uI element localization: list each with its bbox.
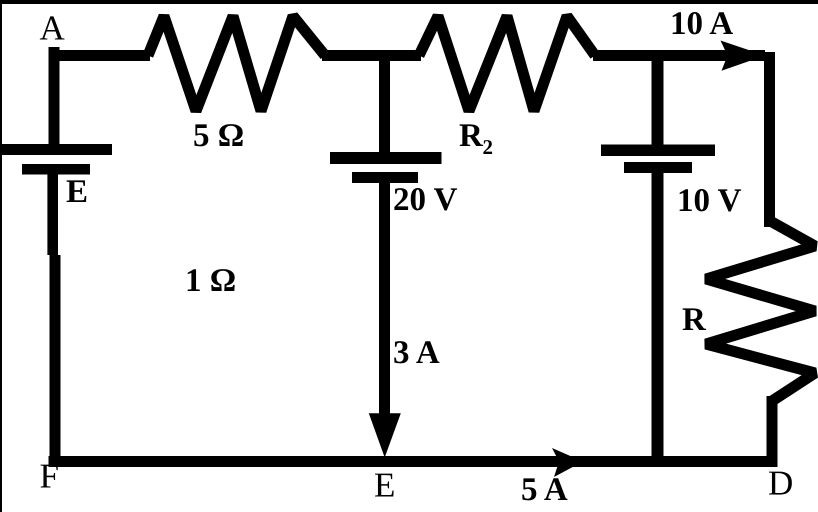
svg-text:E: E <box>66 174 88 210</box>
svg-text:10 A: 10 A <box>670 6 733 42</box>
battery 20 V long plate <box>330 152 442 164</box>
resistor R2 zigzag <box>419 16 595 111</box>
svg-text:R: R <box>459 118 484 154</box>
wire right vertical (top corner down to resistor R) <box>764 52 775 227</box>
svg-text:20 V: 20 V <box>393 182 458 218</box>
wire left vertical upper (A to battery E) <box>49 47 60 147</box>
wire right-mid vertical lower (battery to bottom wire) <box>652 167 664 467</box>
battery E long plate <box>0 144 112 155</box>
wire top middle horizontal <box>322 50 421 61</box>
svg-text:E: E <box>374 466 395 505</box>
resistor R zigzag <box>706 222 815 401</box>
wire top right horizontal <box>593 50 765 61</box>
battery 10 V short plate <box>624 162 692 173</box>
svg-text:10 V: 10 V <box>677 183 742 219</box>
svg-text:1 Ω: 1 Ω <box>185 263 236 299</box>
resistor R1 (5 ohm) zigzag <box>148 16 325 111</box>
battery 20 V short plate <box>352 172 418 183</box>
svg-text:A: A <box>40 8 66 47</box>
svg-text:R: R <box>682 302 707 338</box>
wire stub resistor R to node D <box>767 396 778 467</box>
current arrow 3 A <box>369 413 401 457</box>
wire middle vertical lower with current into E <box>379 178 390 440</box>
svg-text:3 A: 3 A <box>393 335 440 371</box>
battery 10 V long plate <box>601 145 715 157</box>
svg-text:D: D <box>768 464 793 503</box>
svg-text:5 A: 5 A <box>521 472 568 508</box>
svg-text:5 Ω: 5 Ω <box>193 118 244 154</box>
wire right-mid vertical upper (top wire to 10V battery) <box>652 50 664 146</box>
current arrow 5 A <box>552 448 583 477</box>
wire middle vertical upper (top wire to 20V battery) <box>379 50 390 154</box>
svg-text:F: F <box>40 456 59 495</box>
svg-text:2: 2 <box>483 135 494 159</box>
wire A stub and top-left horizontal <box>49 47 151 61</box>
wire left vertical lower (battery to F) <box>47 174 58 255</box>
wire bottom horizontal F to D <box>49 456 778 467</box>
battery E short plate <box>22 164 90 175</box>
current arrow 10 A <box>721 41 766 71</box>
